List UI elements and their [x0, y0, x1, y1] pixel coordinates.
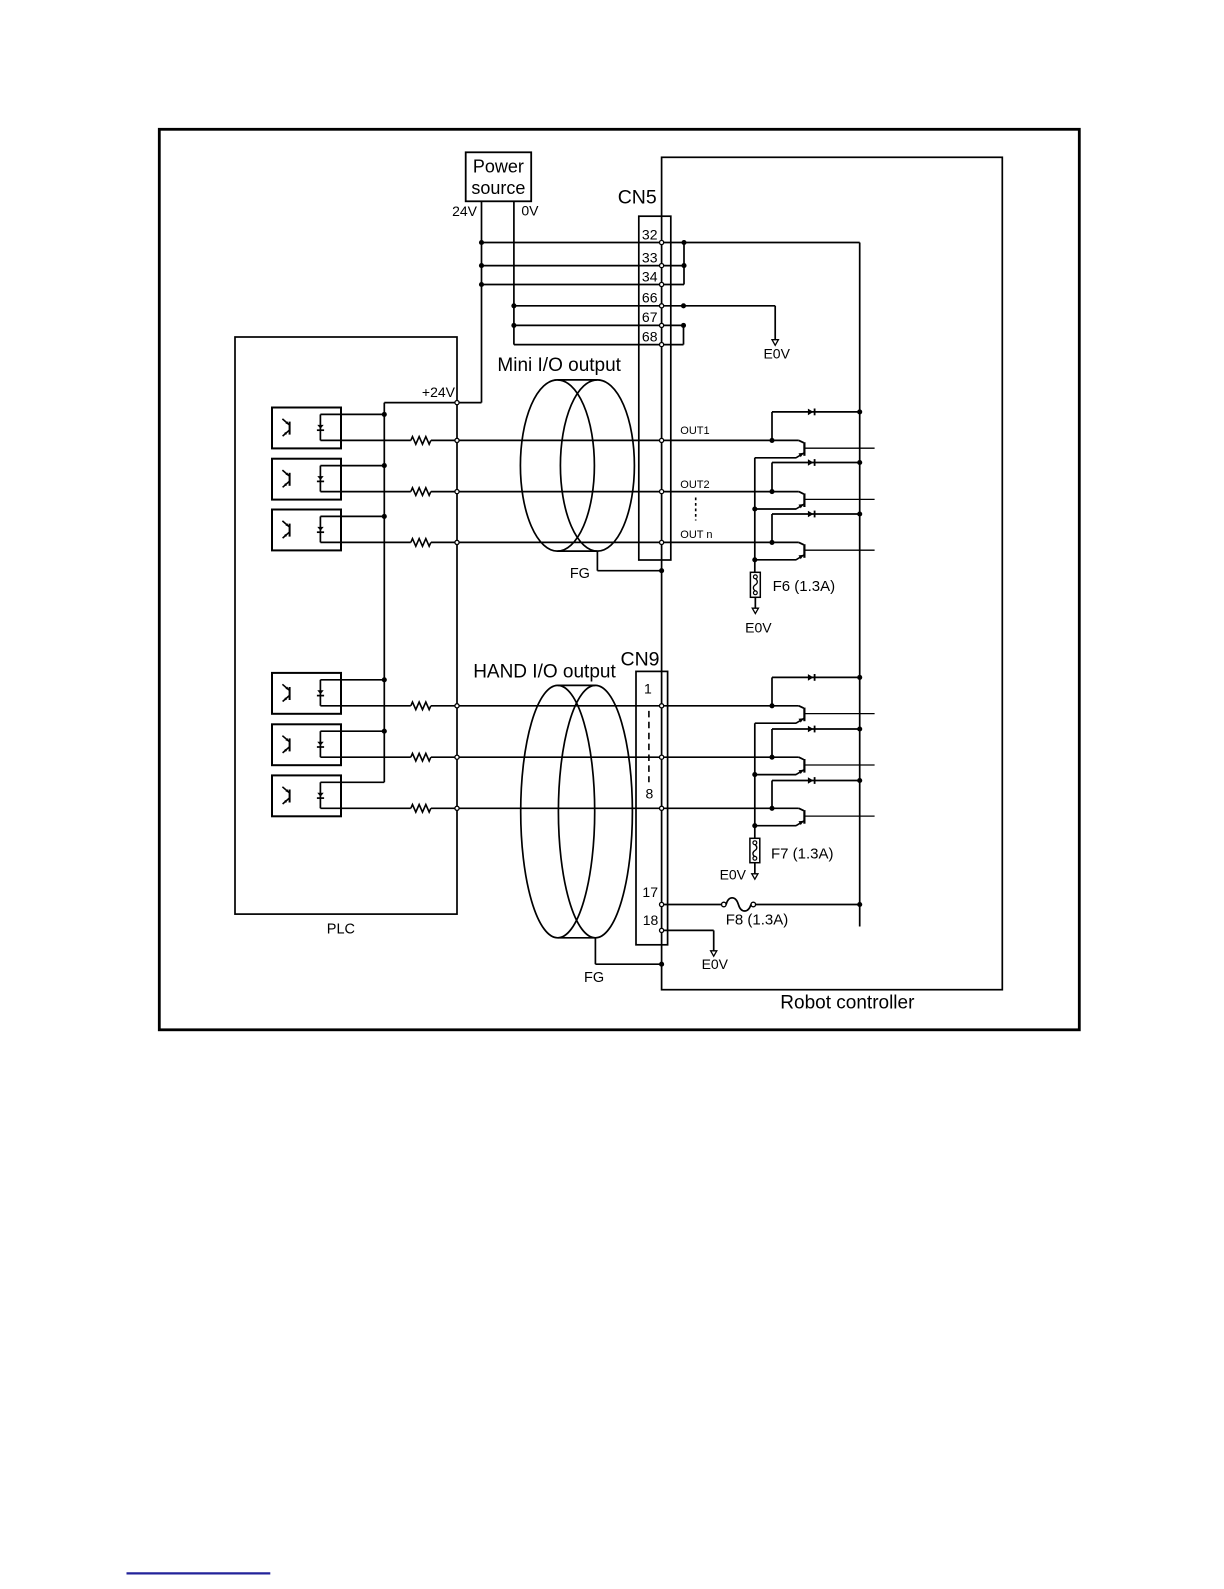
cable shield Mini I/O (ellipses) [520, 380, 594, 551]
svg-text:OUT2: OUT2 [680, 479, 709, 491]
optocoupler PC4 body [272, 673, 341, 714]
svg-text:source: source [471, 178, 525, 198]
svg-text:Power: Power [473, 157, 524, 177]
terminal on PLC edge row 1 [455, 438, 459, 442]
wire diode row 4 [772, 676, 860, 678]
optocoupler PC6 body [272, 775, 341, 816]
svg-text:34: 34 [642, 268, 658, 284]
wire pin 66 to 0V rail [514, 305, 775, 307]
pin terminal 66 [660, 304, 664, 308]
svg-text:CN9: CN9 [620, 649, 659, 671]
ellipsis between OUT2 and OUT n [695, 498, 697, 521]
fuse F7 [750, 838, 760, 862]
fuse F6 [750, 572, 760, 597]
resistor R1 [411, 437, 431, 445]
junction PC4 anode / +24V column [382, 677, 387, 682]
junction diode 6 / bus [857, 778, 862, 783]
wire PC1 anode to +24V column [320, 413, 384, 415]
junction emitter Q3 [752, 557, 757, 562]
wire emitter Q2 to common [755, 508, 797, 510]
resistor R4 [411, 702, 431, 710]
wire emitter Q4 to common [755, 722, 797, 724]
optocoupler PC4 LED [319, 680, 321, 706]
wire 24V lead vertical [481, 201, 483, 402]
optocoupler PC3 LED [319, 516, 321, 542]
pin terminal 32 [660, 240, 664, 244]
junction tie at pin 32 [681, 240, 686, 245]
optocoupler PC2 LED [319, 466, 321, 492]
junction diode 3 / bus [857, 511, 862, 516]
wire diode row 1 [772, 411, 860, 413]
svg-text:Mini I/O output: Mini I/O output [497, 355, 621, 376]
wire Mini cable FG tail [596, 551, 598, 571]
svg-text:FG: FG [570, 566, 590, 582]
wire base-row 1 riser to diode [771, 412, 773, 441]
pin terminal OUT1 [660, 438, 664, 442]
wire emitter Q3 to common [755, 559, 797, 561]
wire diode row 2 [772, 462, 860, 464]
svg-text:E0V: E0V [763, 346, 790, 362]
connector CN9 body [636, 671, 668, 944]
svg-text:24V: 24V [452, 203, 478, 219]
svg-text:E0V: E0V [720, 867, 747, 883]
wire PC5 anode to +24V column [320, 730, 384, 732]
diode D2 [808, 459, 814, 466]
wire base-row 4 riser to diode [771, 677, 773, 705]
wire tie pins 32-33-34 [683, 243, 685, 285]
wire output row 4 (cathode to CN pin to transistor base) [320, 705, 410, 707]
optocoupler PC3 body [272, 510, 341, 551]
wire emitter Q6 to common [755, 825, 797, 827]
wire output row 3 (cathode to CN pin to transistor base) [320, 541, 410, 543]
E0V terminal arrow (F7) [752, 874, 758, 879]
optocoupler PC3 phototransistor [289, 524, 291, 537]
svg-text:1: 1 [644, 681, 652, 697]
wire base-row 6 riser to diode [771, 781, 773, 809]
wire pin 17 to F8 [662, 904, 722, 906]
pin terminal CN9-1 [660, 704, 664, 708]
optocoupler PC2 phototransistor [289, 473, 291, 486]
wire PC3 anode to +24V column [320, 515, 384, 517]
junction PC5 anode / +24V column [382, 729, 387, 734]
wire 0V lead vertical [513, 201, 515, 344]
optocoupler PC5 phototransistor [289, 738, 291, 751]
cable shield HAND I/O (ellipses) [521, 685, 595, 937]
optocoupler PC5 LED [319, 731, 321, 757]
terminal on PLC edge row 2 [455, 490, 459, 494]
svg-text:HAND I/O output: HAND I/O output [473, 661, 616, 682]
wire PC4 anode to +24V column [320, 679, 384, 681]
junction base row 3 [769, 540, 774, 545]
robot controller enclosure box [662, 157, 1003, 989]
E0V terminal arrow (CN5 group) [772, 340, 778, 346]
ellipsis pins 1..8 [648, 711, 650, 782]
wire F8 to bus [756, 904, 860, 906]
svg-text:0V: 0V [521, 203, 539, 219]
junction PC1 anode / +24V column [382, 412, 387, 417]
svg-text:+24V: +24V [422, 384, 456, 400]
power source PS1 box [466, 152, 532, 201]
wire diode row 6 [772, 780, 860, 782]
junction pin66/0V [511, 303, 516, 308]
svg-text:18: 18 [643, 912, 659, 928]
diode D4 [808, 674, 814, 681]
junction emitter Q6 [752, 823, 757, 828]
terminal on PLC edge row 5 [455, 755, 459, 759]
svg-text:66: 66 [642, 290, 658, 306]
optocoupler PC5 body [272, 724, 341, 765]
svg-text:E0V: E0V [745, 620, 772, 636]
wire +24V collector bus [859, 243, 861, 927]
wire base-row 5 riser to diode [771, 729, 773, 757]
wire output row 1 (cathode to CN pin to transistor base) [320, 439, 410, 441]
wire PC6 anode to +24V column [320, 781, 384, 783]
svg-text:67: 67 [642, 309, 658, 325]
junction diode 1 / bus [857, 409, 862, 414]
svg-text:17: 17 [642, 884, 658, 900]
junction FG HAND on controller edge [659, 962, 664, 967]
pin terminal 33 [660, 264, 664, 268]
svg-text:CN5: CN5 [618, 187, 657, 209]
optocoupler PC1 LED [319, 414, 321, 440]
E0V terminal arrow (F6) [752, 608, 758, 613]
junction pin33/24V [479, 263, 484, 268]
wire pin 32 to 24V rail [482, 242, 860, 244]
wire output row 6 (cathode to CN pin to transistor base) [320, 807, 410, 809]
terminal on PLC edge row 3 [455, 540, 459, 544]
wire base-row 2 riser to diode [771, 463, 773, 492]
junction base row 6 [769, 806, 774, 811]
resistor R3 [411, 539, 431, 547]
junction tie at pin 66 [681, 303, 686, 308]
junction pin32/24V [479, 240, 484, 245]
wire output row 5 (cathode to CN pin to transistor base) [320, 756, 410, 758]
wire F7 to E0V [754, 863, 756, 874]
junction pin67/0V [511, 323, 516, 328]
node +24V terminal on PLC edge [455, 401, 459, 405]
svg-text:32: 32 [642, 226, 658, 242]
junction PC2 anode / +24V column [382, 463, 387, 468]
junction emitter Q2 [752, 506, 757, 511]
svg-text:OUT1: OUT1 [680, 425, 709, 437]
junction base row 2 [769, 489, 774, 494]
pin terminal CN9-8 [660, 806, 664, 810]
wire HAND cable FG tail [594, 938, 596, 964]
wire emitter Q5 to common [755, 774, 797, 776]
wire pin 33 to 24V rail [482, 265, 685, 267]
transistor Q5 [799, 757, 804, 759]
pin terminal OUT2 [660, 490, 664, 494]
wire E0V drop from pin 66 [774, 306, 776, 340]
svg-text:OUT n: OUT n [680, 529, 712, 541]
optocoupler PC6 phototransistor [289, 790, 291, 803]
wire pin 18 to E0V [662, 929, 714, 931]
junction base row 4 [769, 703, 774, 708]
junction diode 4 / bus [857, 675, 862, 680]
pin terminal CN9-18 [660, 928, 664, 932]
diode D3 [808, 511, 814, 518]
diode D5 [808, 726, 814, 733]
optocoupler PC1 body [272, 408, 341, 449]
optocoupler PC1 phototransistor [289, 422, 291, 435]
transistor Q3 [799, 542, 804, 544]
optocoupler PC6 LED [319, 782, 321, 808]
svg-text:F8 (1.3A): F8 (1.3A) [726, 912, 789, 929]
wire +24V rail [384, 402, 481, 404]
wire base-row 3 riser to diode [771, 514, 773, 542]
pin terminal 68 [660, 343, 664, 347]
transistor Q6 [799, 808, 804, 810]
svg-text:E0V: E0V [702, 956, 729, 972]
wire output row 2 (cathode to CN pin to transistor base) [320, 491, 410, 493]
junction base row 1 [769, 438, 774, 443]
wire emitter Q1 to common [755, 457, 797, 459]
junction pin34/24V [479, 282, 484, 287]
junction PC3 anode / +24V column [382, 514, 387, 519]
wire pin 68 horizontal [514, 344, 684, 346]
transistor Q4 [799, 706, 804, 708]
junction tie at pin 67 [681, 323, 686, 328]
resistor R5 [411, 753, 431, 761]
transistor Q1 [799, 440, 804, 442]
svg-text:FG: FG [584, 970, 604, 986]
wire tie pins 66-67-68 [683, 325, 685, 344]
terminal on PLC edge row 4 [455, 704, 459, 708]
E0V terminal arrow (pin 18) [711, 951, 717, 956]
footer rule [127, 1572, 271, 1574]
svg-text:Robot controller: Robot controller [780, 993, 915, 1014]
diode D1 [808, 409, 814, 416]
connector CN5 body [639, 216, 671, 560]
junction F8 / bus [857, 902, 862, 907]
svg-text:8: 8 [646, 786, 654, 802]
svg-text:PLC: PLC [327, 922, 355, 938]
resistor R2 [411, 488, 431, 496]
junction emitter Q5 [752, 772, 757, 777]
fuse F8 [722, 902, 727, 907]
diode D6 [808, 777, 814, 784]
wire emitter common (Mini group) [754, 458, 756, 573]
junction diode 2 / bus [857, 460, 862, 465]
pin terminal 67 [660, 323, 664, 327]
resistor R6 [411, 805, 431, 813]
wire emitter common (HAND group) [754, 723, 756, 838]
svg-text:33: 33 [642, 249, 658, 265]
PLC enclosure box [235, 337, 457, 914]
junction diode 5 / bus [857, 726, 862, 731]
svg-text:F7 (1.3A): F7 (1.3A) [771, 845, 834, 862]
terminal on PLC edge row 6 [455, 806, 459, 810]
wire F6 to E0V [754, 597, 756, 608]
wire optocoupler anode column [383, 403, 385, 783]
junction base row 5 [769, 755, 774, 760]
optocoupler PC2 body [272, 459, 341, 500]
wire pin 34 to 24V rail [482, 284, 685, 286]
junction tie at pin 33 [681, 263, 686, 268]
pin terminal CN9-mid [660, 755, 664, 759]
wire pin 67 to 0V rail [514, 324, 684, 326]
wire PC2 anode to +24V column [320, 465, 384, 467]
pin terminal OUTn [660, 540, 664, 544]
pin terminal 34 [660, 282, 664, 286]
wire diode row 3 [772, 513, 860, 515]
pin terminal CN9-17 [660, 902, 664, 906]
svg-text:68: 68 [642, 328, 658, 344]
junction FG Mini on controller edge [659, 568, 664, 573]
optocoupler PC4 phototransistor [289, 687, 291, 700]
diagram outer border frame [159, 129, 1079, 1030]
wire diode row 5 [772, 728, 860, 730]
transistor Q2 [799, 492, 804, 494]
svg-text:F6 (1.3A): F6 (1.3A) [773, 578, 836, 595]
